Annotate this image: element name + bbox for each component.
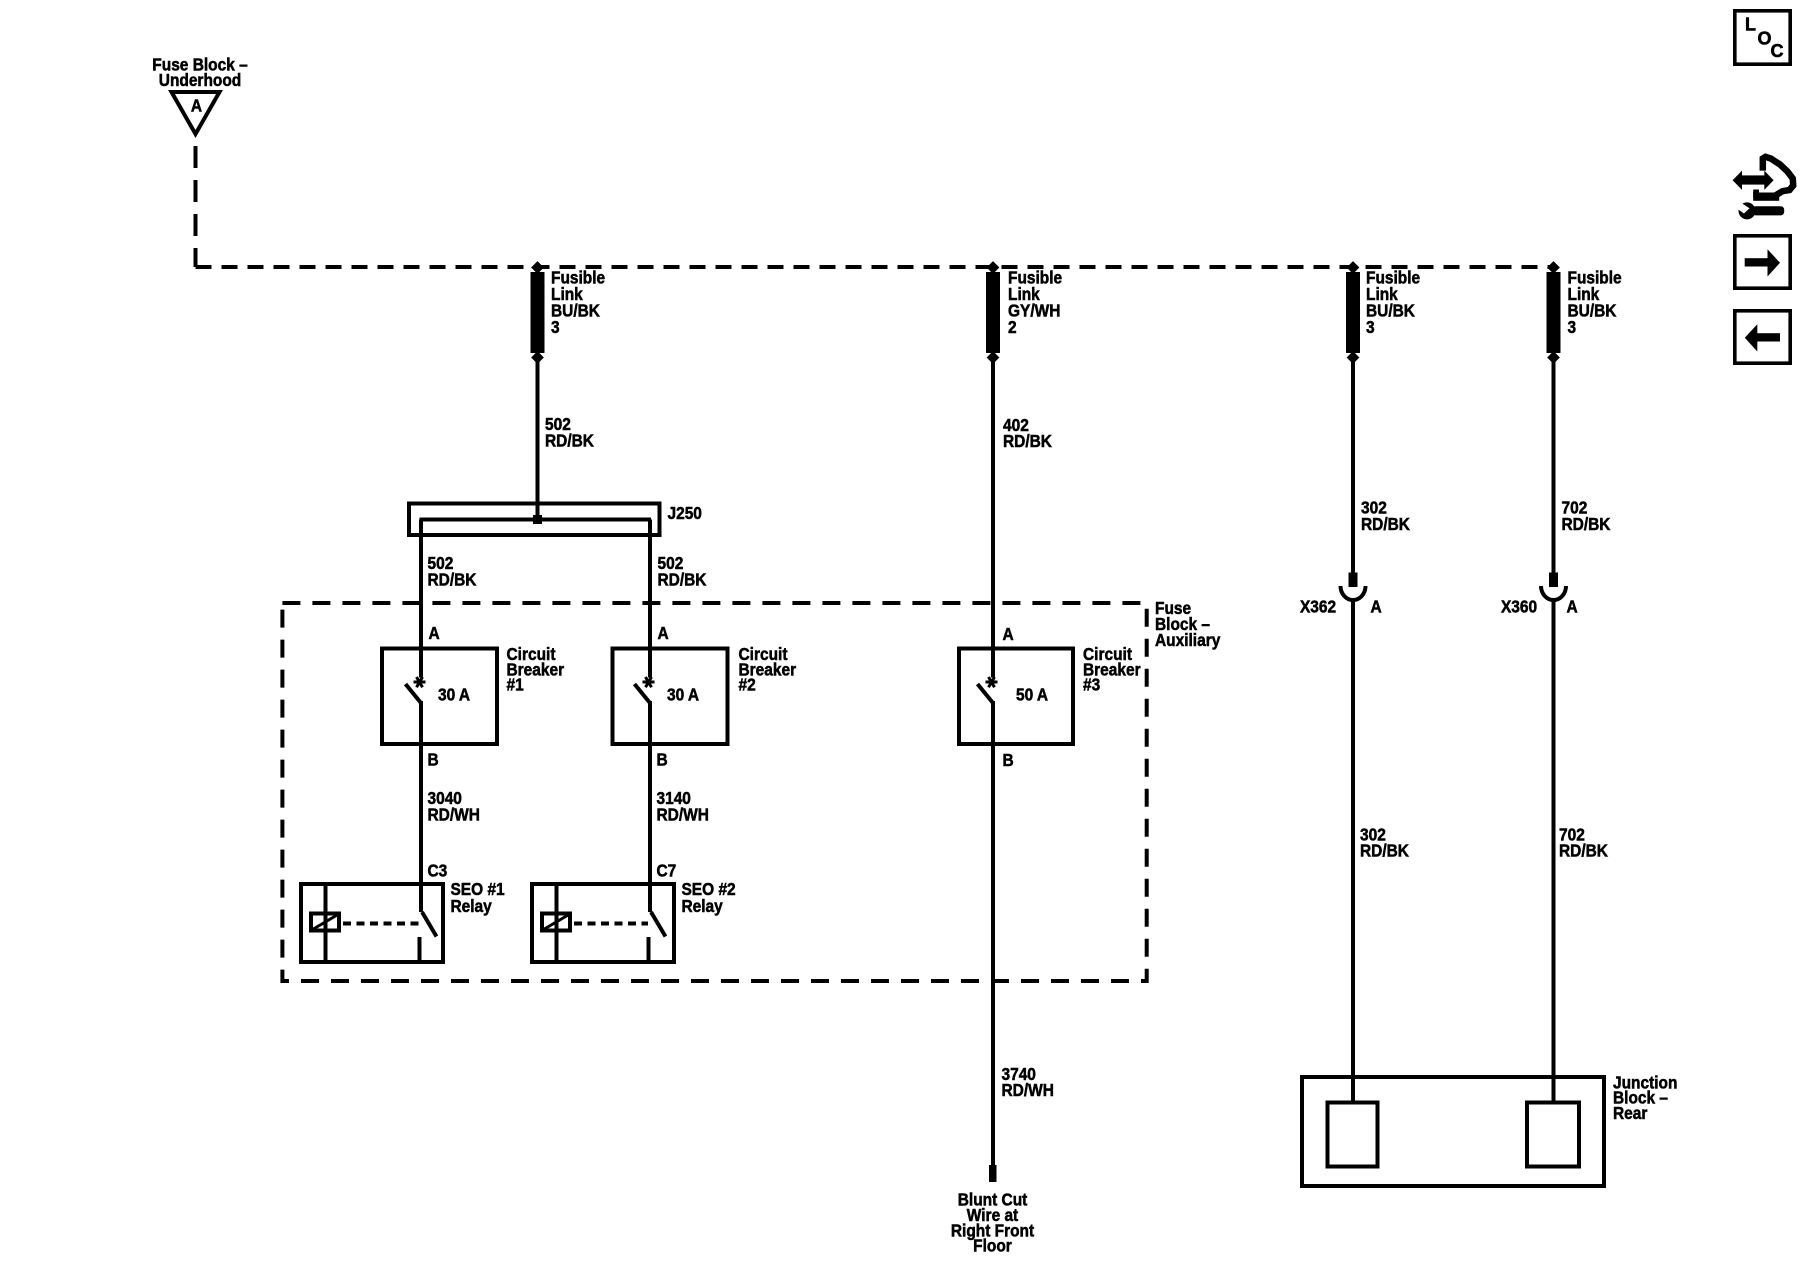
svg-text:Auxiliary: Auxiliary <box>1155 630 1221 650</box>
wire: dashed vertical from connector A <box>194 146 198 267</box>
fusible link 4 BU/BK 3 <box>1547 261 1561 364</box>
circuit breaker #2 blade <box>635 684 651 703</box>
label: Fuse Block - Auxiliary <box>1155 598 1221 650</box>
svg-text:RD/BK: RD/BK <box>428 569 477 589</box>
svg-text:Rear: Rear <box>1613 1103 1648 1123</box>
svg-text:#1: #1 <box>507 675 524 695</box>
relay SEO #2 actuation dashed link <box>574 922 648 926</box>
svg-text:#2: #2 <box>739 675 756 695</box>
svg-text:3: 3 <box>551 317 560 337</box>
label: Blunt Cut Wire at Right Front Floor <box>951 1190 1035 1256</box>
svg-text:A: A <box>1567 597 1578 617</box>
label: Circuit Breaker #1 <box>507 644 565 695</box>
wire 702 RD/BK from X360 to junction block <box>1552 600 1556 1102</box>
label: 702 RD/BK (lower) <box>1559 824 1608 861</box>
wire 3040 RD/WH breaker 1 to relay 1 <box>419 701 423 912</box>
svg-text:RD/BK: RD/BK <box>545 430 594 450</box>
splice J250 <box>409 504 660 536</box>
circuit breaker #2 box <box>613 649 728 745</box>
circuit breaker #3 blade <box>978 684 994 703</box>
label: Circuit Breaker #3 <box>1083 644 1141 695</box>
svg-text:O: O <box>1758 29 1772 49</box>
junction block terminal cavity 2 <box>1527 1103 1579 1167</box>
svg-text:3: 3 <box>1366 317 1375 337</box>
svg-text:X362: X362 <box>1300 597 1336 617</box>
relay SEO #1 box <box>301 884 443 962</box>
svg-text:J250: J250 <box>668 503 702 523</box>
relay SEO #2 box <box>532 884 674 962</box>
connector X362 pin A <box>1341 573 1366 601</box>
svg-text:Floor: Floor <box>973 1236 1012 1256</box>
svg-text:X360: X360 <box>1501 597 1537 617</box>
label: Circuit Breaker #2 <box>739 644 797 695</box>
wire: J250 left branch 502 RD/BK down to breaker 1 <box>419 520 423 678</box>
label: Fusible Link BU/BK 3 (third) <box>1366 268 1420 338</box>
svg-text:50 A: 50 A <box>1016 684 1048 704</box>
label: 702 RD/BK (upper) <box>1562 498 1611 535</box>
label: SEO #1 Relay <box>451 879 505 916</box>
circuit breaker #1 thermal asterisk <box>414 677 426 687</box>
svg-text:A: A <box>1371 597 1382 617</box>
svg-text:RD/WH: RD/WH <box>1002 1080 1054 1100</box>
svg-text:A: A <box>1003 624 1014 644</box>
label: Fuse Block - Underhood <box>152 54 247 90</box>
connector X360 pin A <box>1541 573 1566 601</box>
icon: arrow left box <box>1735 311 1790 363</box>
svg-text:3: 3 <box>1568 317 1577 337</box>
label: 3740 RD/WH <box>1002 1064 1054 1101</box>
circuit breaker #2 thermal asterisk <box>643 677 655 687</box>
wire 302 RD/BK from X362 to junction block <box>1351 600 1355 1102</box>
label: 502 RD/BK (left branch) <box>428 553 477 590</box>
blunt cut wire terminal <box>989 1165 997 1182</box>
svg-text:RD/WH: RD/WH <box>657 804 709 824</box>
svg-text:30 A: 30 A <box>667 684 699 704</box>
svg-text:RD/BK: RD/BK <box>1003 431 1052 451</box>
wire 402 RD/BK from fusible link 2 to breaker 3 <box>991 362 995 678</box>
svg-text:RD/BK: RD/BK <box>1361 514 1410 534</box>
LOC icon box <box>1735 11 1790 64</box>
label: 302 RD/BK (upper) <box>1361 498 1410 535</box>
fusible link 3 BU/BK 3 <box>1346 261 1360 364</box>
circuit breaker #1 blade <box>406 684 422 703</box>
wire: dashed horizontal bus from fuse block underhood <box>196 265 1554 269</box>
svg-text:C: C <box>1771 41 1784 61</box>
svg-text:RD/BK: RD/BK <box>658 569 707 589</box>
svg-text:B: B <box>657 749 668 769</box>
svg-text:30 A: 30 A <box>438 684 470 704</box>
label: Fusible Link BU/BK 3 (fourth) <box>1568 268 1622 338</box>
label: 502 RD/BK (right branch) <box>658 553 707 590</box>
relay SEO #2 coil <box>542 914 570 931</box>
wire 702 RD/BK from fusible link 4 to X360 <box>1552 362 1556 573</box>
label: Fusible Link BU/BK 3 (first) <box>551 268 605 338</box>
wire 502 RD/BK from fusible link 1 to J250 <box>536 362 540 520</box>
svg-text:C7: C7 <box>657 860 677 880</box>
wire: J250 right branch 502 RD/BK down to breaker 2 <box>648 520 652 678</box>
relay SEO #2 switch blade <box>651 912 666 937</box>
relay SEO #2 coil leg <box>555 882 559 964</box>
circuit breaker #3 thermal asterisk <box>986 677 998 687</box>
svg-text:L: L <box>1745 15 1756 35</box>
svg-text:RD/BK: RD/BK <box>1360 841 1409 861</box>
svg-text:2: 2 <box>1008 317 1017 337</box>
label: Fusible Link GY/WH 2 <box>1008 268 1062 338</box>
circuit breaker #3 box <box>959 649 1073 745</box>
label: 3040 RD/WH <box>428 788 480 825</box>
connector A (Fuse Block - Underhood) triangle <box>172 92 220 134</box>
svg-text:A: A <box>658 623 669 643</box>
icon: arrow right box <box>1735 236 1790 288</box>
svg-text:A: A <box>191 95 202 115</box>
junction block terminal cavity 1 <box>1328 1103 1378 1167</box>
svg-text:B: B <box>1003 750 1014 770</box>
label: 3140 RD/WH <box>657 788 709 825</box>
relay SEO #1 coil <box>311 914 339 931</box>
svg-text:Underhood: Underhood <box>159 70 241 90</box>
wire 3140 RD/WH breaker 2 to relay 2 <box>648 701 652 912</box>
dashed box: Fuse Block - Auxiliary <box>282 603 1146 981</box>
svg-text:C3: C3 <box>428 860 448 880</box>
relay SEO #1 switch blade <box>422 912 437 937</box>
relay SEO #2 bottom contact stub <box>647 937 651 964</box>
label: SEO #2 Relay <box>682 879 736 916</box>
svg-text:RD/BK: RD/BK <box>1562 514 1611 534</box>
fusible link 2 GY/WH 2 <box>986 261 1000 364</box>
fusible link 1 BU/BK 3 <box>531 261 545 364</box>
svg-text:A: A <box>429 623 440 643</box>
circuit breaker #1 box <box>382 649 497 745</box>
icon: double arrow with hand and wrench <box>1733 157 1794 220</box>
relay SEO #1 coil leg <box>324 882 328 964</box>
label: 502 RD/BK (upper) <box>545 414 594 451</box>
label: 302 RD/BK (lower) <box>1360 824 1409 861</box>
wire 3740 RD/WH breaker 3 down to blunt cut <box>991 701 995 1165</box>
relay SEO #1 actuation dashed link <box>343 922 419 926</box>
label: Junction Block - Rear <box>1613 1072 1677 1123</box>
svg-text:#3: #3 <box>1083 675 1100 695</box>
label: 402 RD/BK <box>1003 415 1052 452</box>
svg-text:B: B <box>428 749 439 769</box>
svg-text:Relay: Relay <box>682 896 724 916</box>
wire 302 RD/BK from fusible link 3 to X362 <box>1351 362 1355 573</box>
relay SEO #1 bottom contact stub <box>418 937 422 964</box>
svg-text:Relay: Relay <box>451 896 493 916</box>
junction block rear box <box>1302 1077 1604 1186</box>
svg-text:RD/BK: RD/BK <box>1559 841 1608 861</box>
svg-text:RD/WH: RD/WH <box>428 804 480 824</box>
